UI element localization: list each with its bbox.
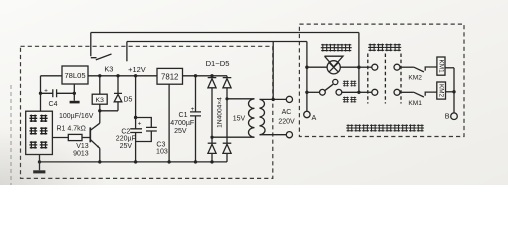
wire: KM1 coil to right bus [445, 67, 454, 69]
node: C2 ground junction [134, 160, 137, 163]
svg-text:D5: D5 [124, 96, 133, 103]
wire: row1 to lamp [307, 66, 327, 68]
svg-text:B: B [445, 111, 450, 120]
svg-text:K3: K3 [104, 65, 113, 74]
svg-text:KM1: KM1 [408, 100, 422, 107]
switch contact KM1 (row2) [414, 92, 424, 97]
wire: row2 connector to KM1 contact [400, 91, 414, 93]
label 解除 [343, 97, 349, 103]
node: C2/C3 top junction [134, 116, 137, 119]
wire: 78L05 gnd pin down [73, 84, 75, 101]
wire: bridge left column middle [211, 88, 213, 143]
svg-text:+: + [44, 87, 48, 94]
node: C1 ground junction [194, 160, 197, 163]
svg-text:KM2: KM2 [438, 84, 445, 98]
diode D5 flyback [114, 76, 122, 111]
module box 遥控接收模块 [26, 111, 53, 154]
wire: right bus vertical [453, 68, 455, 113]
svg-text:C4: C4 [49, 101, 58, 108]
node: AC tap junction [272, 98, 275, 101]
svg-text:1N4004×4: 1N4004×4 [216, 97, 223, 128]
node: module ground junction [38, 160, 41, 163]
capacitor C1 [190, 76, 201, 162]
svg-text:25V: 25V [120, 143, 133, 150]
wire: wire1 vertical drop at x=358.9 [358, 33, 360, 93]
svg-text:7812: 7812 [161, 73, 178, 82]
wire: coil-diode bottom link [100, 110, 118, 112]
wire: emitter down to ground rail [99, 148, 101, 162]
svg-text:+: + [138, 121, 142, 128]
wire: transformer secondary bottom lead [212, 136, 255, 138]
svg-text:+: + [191, 106, 195, 113]
node: rail at C1 [194, 74, 197, 77]
terminal: row2 connector right [394, 89, 400, 95]
interlock release switch [307, 91, 320, 93]
svg-text:100µF/16V: 100µF/16V [59, 113, 94, 120]
node: left bus row2 [305, 91, 308, 94]
wire: 7812 gnd down to ground rail [168, 84, 170, 162]
svg-text:+12V: +12V [128, 65, 146, 74]
capacitor C2 [130, 118, 142, 142]
node: C4 right / 78L05 gnd junction [73, 92, 76, 95]
wire: rail corner down to C4 node [40, 76, 42, 94]
terminal: AC top [286, 96, 292, 102]
ground bar under 78L05 [70, 101, 80, 104]
alarm lamp/horn symbol [327, 61, 340, 74]
wire: K3 coil bottom [99, 104, 101, 111]
wire: C2 bottom to ground rail [135, 142, 137, 162]
ground rail bottom [40, 161, 228, 163]
wire: R1 to V13 base [82, 137, 90, 139]
label 声光报警 [321, 44, 329, 52]
capacitor C4 [41, 89, 75, 97]
transformer T1 primary winding [260, 99, 266, 134]
terminal: row1 connector right [394, 64, 400, 70]
capacitor C3 loop [136, 118, 157, 142]
wire: row1 connector to KM2 contact [400, 66, 414, 68]
wire: rail down to K3 coil [99, 76, 101, 94]
svg-text:220µF: 220µF [116, 136, 136, 143]
node: 7812 ground junction [167, 160, 170, 163]
svg-text:C1: C1 [179, 112, 188, 119]
diode D3 bridge bottom-left [208, 142, 217, 144]
diode D2 bridge top-right [223, 76, 232, 78]
relay coil K3 [92, 94, 107, 104]
label 遥控 (module row1) [29, 115, 37, 122]
switch contact KM2 (row1) [414, 67, 424, 72]
svg-text:KM1: KM1 [438, 60, 445, 74]
wire: primary bottom lead [260, 134, 287, 136]
travel switch panel dashed separators [367, 54, 369, 104]
node: mid bus row1 [357, 66, 360, 69]
svg-text:78L05: 78L05 [64, 71, 85, 80]
regulator U2 7812 [157, 68, 183, 84]
wire: row2 to connector [359, 91, 372, 93]
transformer T1 secondary winding [249, 99, 255, 137]
svg-text:25V: 25V [174, 128, 187, 135]
svg-text:15V: 15V [233, 115, 246, 122]
wire: KM2 coil to right bus [446, 91, 455, 93]
svg-text:K3: K3 [96, 97, 105, 104]
terminal A [304, 111, 310, 117]
wire: wire2 T-branch down to AC primary top [272, 42, 274, 100]
wire: wire2 corner drop into right box [306, 42, 308, 112]
contactor coil KM2 [437, 82, 446, 99]
svg-text:KM2: KM2 [408, 74, 422, 81]
right dashed enclosure box [299, 24, 464, 136]
node: rail at bridge left column [210, 74, 213, 77]
relay contact K3 (top) [91, 33, 97, 58]
svg-text:103: 103 [156, 148, 168, 155]
svg-text:AC: AC [282, 109, 292, 116]
node: bridge left ground junction [210, 160, 213, 163]
node: rail at C2 [134, 74, 137, 77]
capacitor polarity marks [44, 87, 195, 127]
wire: wire2 from K3 contact to right box left bus [127, 41, 307, 43]
scan artifact dashed line left edge [10, 85, 12, 185]
wire: bridge right column middle [226, 88, 228, 143]
node: left bus row1 [305, 66, 308, 69]
node: right bus row2 [452, 90, 455, 93]
wire: module box top feed [40, 93, 42, 111]
left dashed enclosure box [21, 46, 273, 178]
+12V top rail [41, 75, 228, 77]
contactor coil KM1 [437, 57, 445, 75]
node: secondary bottom junction [210, 136, 213, 139]
wire: module bottom to ground rail [39, 155, 41, 162]
wire: module output to R1 [52, 137, 68, 139]
node: rail at D5 [116, 74, 119, 77]
wire: transformer secondary top lead [227, 98, 255, 100]
svg-text:A: A [312, 113, 317, 122]
label 原螺旋卸车机控制电路 [346, 124, 354, 131]
node: secondary top junction [225, 97, 228, 100]
wire: collector up to relay node [99, 111, 101, 123]
terminal: AC bottom [286, 132, 292, 138]
node: rail at K3 coil [98, 74, 101, 77]
svg-text:V13: V13 [76, 143, 89, 150]
svg-text:C2: C2 [121, 128, 130, 135]
wire: rail down to C2/C3 node [135, 76, 137, 118]
svg-text:4700µF: 4700µF [170, 120, 194, 127]
terminal: row1 connector left [372, 64, 378, 70]
regulator U1 78L05 [62, 66, 88, 84]
node: emitter ground junction [98, 160, 101, 163]
wire: primary top lead [260, 98, 287, 100]
transistor Q1 V13 9013 [89, 127, 91, 142]
terminal B [451, 113, 458, 120]
ground symbol below module [39, 162, 41, 170]
diode D1 bridge top-left [208, 76, 217, 78]
node: coil/diode bottom junction [98, 109, 101, 112]
svg-text:D1~D5: D1~D5 [206, 59, 230, 68]
label 行走开关 [368, 44, 376, 52]
label 接收 (module row2) [29, 127, 37, 134]
node: mid bus row2 [357, 91, 360, 94]
label 模块 (module row3) [29, 141, 37, 148]
diode D4 bridge bottom-right [223, 142, 232, 144]
terminal: row2 connector left [372, 89, 378, 95]
label 联锁 [343, 81, 349, 87]
wire: lamp to mid junction [340, 66, 359, 68]
node: C4 left junction [39, 92, 42, 95]
svg-text:220V: 220V [278, 118, 295, 125]
wire: row1 to connector [359, 66, 372, 68]
svg-text:R1 4.7kΩ: R1 4.7kΩ [57, 125, 86, 132]
resistor R1 [68, 134, 82, 140]
wire: top wire1 from K3 contact to right box [91, 32, 359, 34]
svg-text:9013: 9013 [73, 150, 89, 157]
